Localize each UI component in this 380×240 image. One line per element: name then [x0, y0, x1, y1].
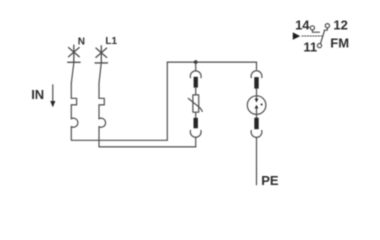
- changeover contact arm 11-12: [321, 31, 325, 44]
- plug knife contact, gas tube top: [254, 77, 258, 89]
- wire blade to gas tube: [256, 89, 258, 99]
- base socket contact, gas tube bottom: [251, 131, 262, 138]
- plug-in socket contact N: [71, 118, 78, 127]
- plug-in knife contact L1: [99, 98, 104, 105]
- contact point 14: [310, 26, 314, 30]
- wire blade to varistor: [195, 88, 197, 95]
- gas discharge tube circle: [247, 96, 266, 115]
- wire top bus: [167, 61, 256, 63]
- svg-text:PE: PE: [261, 173, 279, 188]
- input direction arrow: [50, 85, 55, 107]
- svg-text:FM: FM: [330, 35, 349, 50]
- svg-text:N: N: [78, 37, 85, 48]
- wire N middle: [70, 105, 72, 119]
- thermal disconnector N (X symbol): [69, 45, 80, 62]
- gas tube top electrode: [255, 99, 259, 103]
- plug-in knife contact N: [71, 98, 76, 105]
- base socket contact, varistor bottom: [190, 130, 201, 137]
- switch contact N: [71, 63, 74, 83]
- wire N upper: [70, 83, 72, 98]
- wire to PE: [256, 137, 258, 184]
- mechanical actuator triangle: [293, 32, 300, 39]
- svg-text:IN: IN: [31, 87, 44, 102]
- wire L1 upper: [98, 83, 100, 98]
- gas tube bottom electrode: [255, 105, 259, 109]
- contact point 12: [325, 24, 329, 28]
- plug knife contact, varistor bottom: [194, 118, 198, 129]
- contact point 11: [317, 44, 321, 48]
- contact bar L1: [95, 62, 107, 64]
- wire varistor to blade: [195, 112, 197, 118]
- contact bar N: [68, 61, 80, 63]
- plug knife contact, varistor top: [194, 77, 198, 88]
- wire riser N to top bus: [166, 62, 168, 140]
- gas filling dot: [261, 104, 263, 106]
- plug-in socket contact L1: [99, 118, 106, 127]
- svg-text:11: 11: [303, 39, 317, 54]
- base socket contact, varistor top: [190, 71, 201, 78]
- junction node at varistor top: [194, 60, 198, 64]
- plug knife contact, gas tube bottom: [254, 118, 258, 130]
- base socket contact, gas tube top: [251, 71, 262, 78]
- svg-text:L1: L1: [105, 36, 117, 47]
- varistor diagonal stroke: [188, 98, 202, 111]
- mechanical link dotted line: [302, 35, 322, 37]
- svg-text:12: 12: [333, 18, 347, 33]
- fixed contact seat 14: [312, 30, 319, 32]
- wire gas tube top stub: [256, 62, 258, 69]
- svg-text:14: 14: [295, 18, 310, 33]
- wire varistor top stub: [195, 62, 197, 70]
- wire L1 bottom to varistor: [99, 127, 196, 147]
- fixed contact seat 12: [324, 28, 327, 30]
- wire gas tube to blade: [256, 108, 258, 117]
- wire L1 middle: [98, 105, 100, 119]
- switch contact L1: [99, 64, 101, 84]
- thermal disconnector L1 (X symbol): [96, 46, 107, 63]
- wire N bottom to node: [71, 127, 167, 141]
- varistor body: [193, 95, 199, 112]
- wire varistor bottom stub: [195, 137, 197, 147]
